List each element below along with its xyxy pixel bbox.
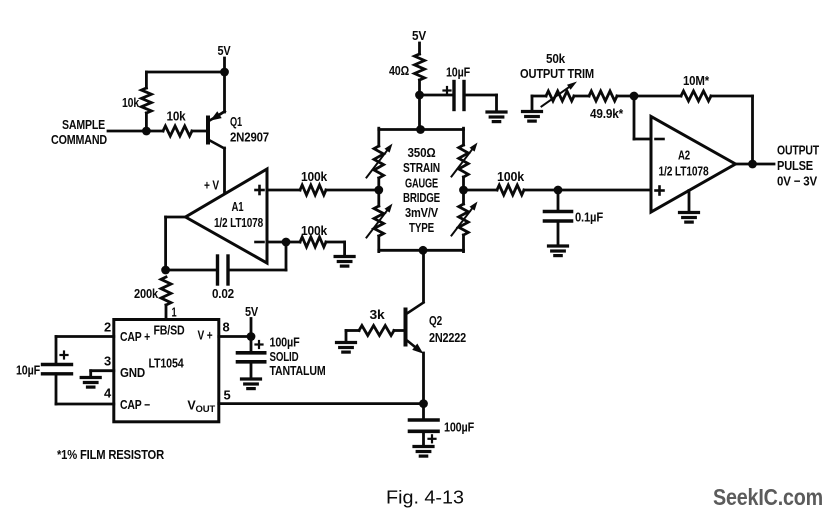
junction [419, 399, 428, 408]
svg-text:A2: A2 [678, 148, 690, 163]
potentiometer 50k OUTPUT TRIM [520, 51, 594, 107]
wire (bridge bottom edge) [379, 249, 464, 252]
svg-text:TYPE: TYPE [409, 220, 434, 235]
wire [422, 353, 425, 404]
svg-text:10µF: 10µF [16, 363, 40, 378]
svg-text:100k: 100k [497, 169, 525, 184]
svg-text:CAP −: CAP − [120, 398, 150, 412]
svg-text:1/2 LT1078: 1/2 LT1078 [659, 164, 709, 179]
wire [531, 96, 534, 111]
junction [282, 238, 291, 247]
capacitor 0.02 [212, 256, 234, 301]
wire pin 8 [219, 335, 251, 338]
junction [419, 246, 428, 255]
label 100uF [444, 420, 474, 435]
resistor 10M* [681, 73, 711, 101]
wire (A2 inverting input) [634, 96, 651, 139]
svg-text:STRAIN: STRAIN [403, 160, 440, 175]
wire (A1 output) [166, 217, 186, 270]
svg-text:GAUGE: GAUGE [405, 176, 438, 191]
svg-text:FB/SD: FB/SD [154, 324, 185, 338]
svg-text:0V − 3V: 0V − 3V [777, 174, 817, 189]
svg-text:2N2222: 2N2222 [429, 330, 466, 345]
ground [523, 112, 542, 122]
svg-text:CAP +: CAP + [120, 330, 150, 344]
ground [487, 112, 506, 122]
svg-text:3mV/V: 3mV/V [405, 205, 438, 220]
wire pin 5 VOUT rail [219, 402, 424, 405]
junction [459, 186, 468, 195]
junction [630, 92, 639, 101]
ground [337, 343, 356, 353]
wire [192, 130, 206, 133]
pin 3 [104, 355, 111, 369]
node 5V (LT1054) [245, 304, 258, 337]
svg-text:10µF: 10µF [446, 65, 470, 80]
capacitor 10uF (charge pump) [16, 352, 72, 378]
wire (bridge right edge) [462, 128, 465, 251]
resistor 3k [359, 307, 394, 336]
wire pin 1 [166, 305, 177, 320]
svg-text:8: 8 [223, 321, 230, 335]
wire [574, 95, 589, 98]
svg-text:1/2 LT1078: 1/2 LT1078 [214, 215, 263, 230]
pin 5 [224, 389, 231, 403]
svg-text:5: 5 [224, 389, 231, 403]
watermark SeekIC.com [713, 484, 823, 510]
svg-text:OUTPUT TRIM: OUTPUT TRIM [520, 66, 594, 81]
wire (bridge left edge) [377, 128, 380, 251]
wire [346, 331, 359, 343]
resistor 49.9k* [589, 91, 624, 121]
wire [617, 95, 634, 98]
svg-text:Q1: Q1 [230, 114, 242, 129]
junction [247, 332, 256, 341]
svg-text:1: 1 [172, 305, 177, 320]
wire [228, 242, 286, 270]
capacitor 10uF (bridge supply) [444, 65, 471, 110]
svg-text:OUTPUT: OUTPUT [777, 143, 819, 158]
svg-text:2: 2 [104, 321, 111, 335]
junction [374, 186, 383, 195]
IC U1 LT1054 [114, 320, 219, 422]
svg-text:3k: 3k [370, 307, 386, 322]
wire [223, 58, 226, 72]
resistor 40 ohm [389, 54, 425, 80]
transistor Q2 2N2222 [406, 303, 467, 354]
wire (feedback to output) [711, 96, 753, 164]
wire [108, 130, 163, 133]
svg-text:5V: 5V [218, 43, 231, 58]
svg-text:3: 3 [104, 355, 111, 369]
ground [549, 246, 568, 256]
transistor Q1 2N2907 [208, 72, 269, 149]
node SAMPLE COMMAND [51, 117, 107, 147]
resistor 100k (A1 gnd leg) [300, 223, 328, 247]
wire [420, 94, 455, 97]
svg-text:2N2907: 2N2907 [230, 130, 269, 145]
wire pin 3 [91, 371, 114, 377]
resistor 100k (bridge to A2 +) [497, 169, 525, 195]
wire [464, 189, 498, 192]
svg-text:10k: 10k [167, 109, 187, 124]
svg-text:PULSE: PULSE [777, 158, 813, 173]
svg-text:Fig. 4-13: Fig. 4-13 [386, 488, 464, 508]
strain gauge (top-left) [367, 144, 393, 178]
svg-text:Q2: Q2 [429, 313, 442, 328]
junction [142, 127, 151, 136]
resistor 10k (base) [163, 109, 192, 137]
pin 4 [104, 387, 111, 401]
pin 8 [223, 321, 230, 335]
svg-text:100k: 100k [301, 169, 328, 184]
junction [748, 160, 757, 169]
wire [464, 95, 497, 111]
svg-text:0.02: 0.02 [212, 286, 234, 301]
wire (non-inverting input A1) [267, 189, 300, 192]
wire (A2 output) [736, 163, 775, 166]
wire [145, 113, 148, 131]
capacitor 0.1uF [545, 190, 604, 246]
wire [418, 43, 421, 54]
svg-text:5V: 5V [412, 28, 426, 43]
op-amp A2 1/2 LT1078 [651, 117, 736, 213]
wire [326, 189, 379, 192]
note 1% film resistor [57, 447, 165, 462]
junction [161, 266, 170, 275]
ground [242, 379, 261, 389]
ground [81, 378, 100, 388]
ground [680, 213, 699, 223]
wire [532, 95, 546, 98]
resistor 100k (bridge to A1 +) [300, 169, 328, 195]
wire [146, 71, 224, 74]
wire [394, 329, 404, 332]
pin 2 [104, 321, 111, 335]
svg-text:SOLID: SOLID [270, 349, 299, 364]
ground [335, 257, 354, 267]
svg-text:SeekIC.com: SeekIC.com [713, 484, 823, 510]
strain gauge (bottom-right) [452, 202, 478, 236]
wire [418, 95, 421, 130]
svg-text:*1% FILM RESISTOR: *1% FILM RESISTOR [57, 447, 165, 462]
svg-text:10k: 10k [122, 95, 140, 110]
op-amp A1 1/2 LT1078 [186, 169, 268, 263]
wire [56, 374, 114, 404]
wire [223, 148, 226, 192]
svg-text:49.9k*: 49.9k* [590, 106, 624, 121]
svg-text:+ V: + V [204, 178, 219, 193]
resistor 200k [134, 277, 171, 305]
capacitor 100uF solid tantalum [238, 337, 265, 379]
svg-text:10M*: 10M* [683, 73, 710, 88]
wire pin 2 [56, 337, 114, 365]
strain gauge (top-right) [452, 143, 478, 177]
svg-text:100µF: 100µF [270, 335, 300, 350]
label 100uF SOLID TANTALUM [270, 335, 326, 379]
wire [418, 80, 421, 95]
node 5V supply (Q1) [218, 43, 231, 58]
svg-text:100µF: 100µF [444, 420, 474, 435]
wire [326, 242, 345, 256]
svg-text:SAMPLE: SAMPLE [62, 117, 105, 132]
ground [414, 447, 433, 457]
svg-text:V +: V + [198, 329, 213, 343]
wire (inverting input A1) [267, 241, 300, 244]
wire [634, 95, 681, 98]
svg-text:200k: 200k [134, 286, 159, 301]
svg-text:BRIDGE: BRIDGE [403, 190, 440, 205]
node 5V (bridge) [412, 28, 426, 43]
node OUTPUT PULSE 0V-3V [777, 143, 819, 189]
wire [524, 189, 651, 192]
junction [415, 91, 424, 100]
svg-text:TANTALUM: TANTALUM [270, 363, 326, 378]
label 350 ohm strain gauge bridge [403, 145, 440, 235]
svg-text:LT1054: LT1054 [149, 357, 184, 371]
svg-text:A1: A1 [232, 199, 244, 214]
svg-text:4: 4 [104, 387, 111, 401]
svg-text:50k: 50k [546, 51, 566, 66]
wire [422, 250, 425, 302]
strain gauge (bottom-left) [367, 204, 393, 238]
svg-text:350Ω: 350Ω [408, 145, 436, 160]
svg-text:40Ω: 40Ω [389, 63, 409, 78]
wire (bridge top edge) [379, 128, 464, 131]
junction [554, 186, 563, 195]
junction [416, 125, 425, 134]
caption Fig. 4-13 [386, 488, 464, 508]
junction [220, 68, 229, 77]
resistor 10k (pull-up) [122, 88, 151, 113]
capacitor 100uF (reservoir) [410, 404, 439, 446]
wire [145, 72, 148, 88]
svg-text:5V: 5V [245, 304, 258, 319]
svg-text:VOUT: VOUT [187, 399, 215, 416]
svg-text:COMMAND: COMMAND [51, 132, 107, 147]
svg-text:0.1µF: 0.1µF [575, 210, 603, 225]
svg-text:GND: GND [120, 366, 145, 380]
svg-text:100k: 100k [301, 223, 328, 238]
wire (A2 ground leg) [688, 191, 691, 213]
wire [166, 269, 218, 272]
